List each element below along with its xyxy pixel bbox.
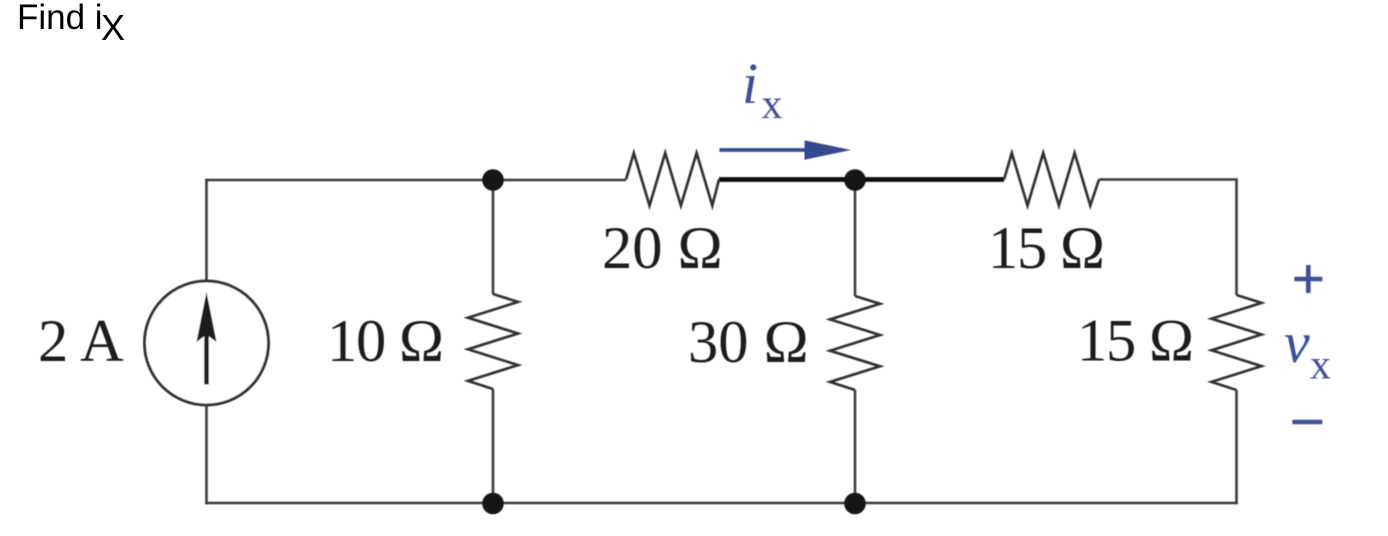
svg-text:X: X <box>101 7 125 48</box>
svg-text:v: v <box>1284 310 1310 375</box>
node dot bottom node1 <box>482 493 504 515</box>
current source arrow shaft <box>204 332 209 385</box>
svg-text:15 Ω: 15 Ω <box>1077 308 1193 375</box>
label plus <box>1294 265 1322 293</box>
svg-text:30 Ω: 30 Ω <box>688 309 809 376</box>
svg-text:x: x <box>762 82 783 128</box>
svg-text:2 A: 2 A <box>38 308 124 375</box>
ix arrow shaft <box>720 148 813 152</box>
title Find ix <box>17 0 125 48</box>
wire right vertical lower <box>1235 390 1238 504</box>
svg-text:i: i <box>742 51 758 116</box>
wire node1 vertical upper <box>492 180 495 294</box>
resistor R1 10ohm zigzag <box>468 294 518 389</box>
wire node1 vertical lower <box>492 389 495 503</box>
wire bold 20ohm to 15ohm <box>719 177 1004 182</box>
resistor R2 20ohm zigzag <box>626 153 719 206</box>
wire node1 to 20ohm <box>493 179 626 182</box>
ix arrowhead <box>805 140 852 159</box>
current source arrowhead <box>197 292 217 342</box>
wire left vertical upper <box>205 179 208 282</box>
current source I1 circle <box>145 281 269 405</box>
wire bottom horizontal <box>205 502 1238 505</box>
node dot top node1 <box>482 169 504 191</box>
node dot bottom node2 <box>844 493 866 515</box>
svg-text:20 Ω: 20 Ω <box>602 215 723 282</box>
wire node2 vertical lower <box>854 390 857 503</box>
wire 15ohm to top-right corner <box>1099 178 1237 181</box>
wire top-left horizontal <box>205 179 493 182</box>
node dot top node2 <box>844 169 866 191</box>
wire node2 vertical upper <box>854 180 857 296</box>
label minus <box>1292 420 1322 424</box>
wire right vertical upper <box>1235 178 1238 295</box>
svg-text:15 Ω: 15 Ω <box>988 215 1104 282</box>
svg-text:10 Ω: 10 Ω <box>327 308 443 375</box>
resistor R4 15ohm top zigzag <box>1004 153 1099 206</box>
svg-text:Find i: Find i <box>17 0 103 37</box>
svg-text:x: x <box>1310 343 1331 389</box>
resistor R5 15ohm right zigzag <box>1212 295 1262 390</box>
wire left vertical lower <box>205 405 208 505</box>
resistor R3 30ohm zigzag <box>830 296 880 390</box>
